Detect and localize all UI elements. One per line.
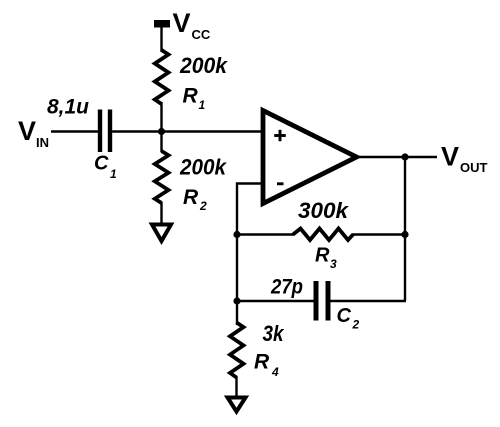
node dot C2 left xyxy=(233,297,240,304)
node dot R3 left xyxy=(233,231,240,238)
wire op-amp output xyxy=(357,156,437,158)
svg-text:1: 1 xyxy=(110,167,117,181)
ground under R4 xyxy=(228,398,246,412)
node A junction dot xyxy=(158,128,165,135)
op-amp U1 xyxy=(263,111,357,204)
svg-text:2: 2 xyxy=(352,318,360,332)
node dot R3 right xyxy=(401,231,408,238)
wire C1 to op-amp plus input xyxy=(112,130,263,132)
wire R4 to ground xyxy=(235,376,237,398)
svg-text:R: R xyxy=(183,186,199,209)
wire output column down xyxy=(404,157,406,301)
svg-text:V: V xyxy=(173,8,191,38)
node B output junction dot xyxy=(401,153,408,160)
svg-text:R: R xyxy=(183,85,199,108)
svg-text:CC: CC xyxy=(192,27,211,42)
op-amp non-inverting input marker + xyxy=(274,130,286,141)
wire R2 to ground xyxy=(160,202,162,223)
wire R1 to node A xyxy=(160,102,162,133)
svg-text:8,1u: 8,1u xyxy=(47,96,89,119)
resistor R4 xyxy=(230,323,244,378)
resistor R3 xyxy=(293,229,353,241)
resistor R1 xyxy=(155,50,169,104)
resistor R2 xyxy=(155,151,169,203)
ground under R2 xyxy=(152,225,171,242)
svg-text:V: V xyxy=(18,116,36,146)
wire R3 left xyxy=(237,233,294,235)
label R3 xyxy=(315,245,337,272)
label R1 xyxy=(183,85,206,113)
wire C2 left xyxy=(237,300,314,302)
svg-text:V: V xyxy=(441,142,459,172)
wire R3 right xyxy=(352,233,405,235)
capacitor C2 xyxy=(316,281,328,321)
label R2 xyxy=(183,186,207,213)
svg-text:R: R xyxy=(254,351,270,374)
svg-text:3k: 3k xyxy=(263,321,286,346)
label VOUT xyxy=(441,142,488,176)
svg-text:IN: IN xyxy=(36,135,49,150)
wire op-amp minus input to feedback column xyxy=(237,184,263,326)
wire node A to R2 xyxy=(160,132,162,153)
svg-text:4: 4 xyxy=(271,365,279,379)
label R4 xyxy=(254,351,279,380)
svg-text:200k: 200k xyxy=(179,155,228,180)
svg-text:R: R xyxy=(315,245,330,267)
label VCC xyxy=(173,8,211,42)
label C2 xyxy=(337,305,360,332)
capacitor C1 xyxy=(100,110,110,153)
svg-text:OUT: OUT xyxy=(460,160,488,175)
svg-text:C: C xyxy=(94,153,109,175)
wire VCC bar to R1 xyxy=(160,26,162,52)
svg-text:C: C xyxy=(337,305,352,327)
label VIN xyxy=(18,116,49,150)
wire VIN to C1 xyxy=(51,130,98,132)
op-amp inverting input marker - xyxy=(277,182,284,185)
wire C2 right xyxy=(331,300,407,302)
svg-text:300k: 300k xyxy=(298,198,350,223)
power rail VCC bar xyxy=(154,20,170,28)
svg-text:2: 2 xyxy=(199,199,207,213)
svg-text:3: 3 xyxy=(330,257,337,271)
svg-text:27p: 27p xyxy=(270,276,303,299)
svg-text:200k: 200k xyxy=(179,53,229,78)
label C1 xyxy=(94,153,117,182)
svg-text:1: 1 xyxy=(199,98,206,112)
